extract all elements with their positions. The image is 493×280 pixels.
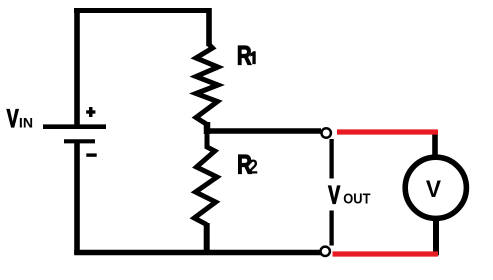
wire: right vertical from top wire down to R1 [206, 8, 212, 46]
wire: Vout vertical lower segment [329, 211, 333, 246]
svg-text:IN: IN [19, 114, 33, 130]
wire: left vertical from top wire down to battery + plate [74, 8, 80, 126]
terminal: Vout+ open circle [322, 128, 331, 137]
label VIN [7, 105, 33, 133]
battery - polarity mark [86, 153, 96, 156]
wire: red lead from Vout+ terminal to voltmeter [337, 129, 438, 134]
svg-text:2: 2 [248, 156, 258, 179]
voltmeter M1 body [405, 157, 466, 218]
wire: voltmeter top lead [432, 131, 438, 156]
resistor R2 zigzag [194, 133, 217, 225]
wire: red lead from Vout- terminal to voltmeter [333, 251, 439, 256]
svg-text:V: V [426, 175, 441, 202]
svg-text:OUT: OUT [343, 191, 371, 207]
node: junction between R1 and R2 [204, 122, 211, 134]
wire: middle horizontal from junction to Vout+ terminal [204, 128, 321, 134]
label R1 [237, 42, 256, 71]
battery + polarity mark [86, 107, 95, 117]
terminal: Vout- open circle [321, 247, 330, 256]
battery V1 negative plate (short) [64, 139, 95, 143]
svg-text:R: R [237, 42, 252, 71]
svg-text:V: V [328, 182, 340, 210]
wire: top horizontal from battery + to R1 top [74, 8, 212, 13]
wire: battery - lead down to bottom wire [74, 143, 80, 254]
resistor R1 zigzag [196, 44, 218, 125]
wire: voltmeter bottom lead [433, 220, 439, 255]
svg-text:V: V [7, 105, 19, 133]
wire: R2 bottom lead to bottom wire [204, 223, 210, 252]
wire: Vout vertical upper segment [329, 139, 333, 179]
label VOUT [328, 182, 371, 210]
wire: bottom horizontal from battery - to bottom terminal [74, 250, 321, 256]
battery V1 positive plate (long) [43, 124, 106, 129]
label R2 [237, 151, 258, 180]
